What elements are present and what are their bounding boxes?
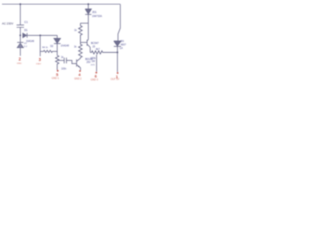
resistor R3 vertical	[79, 42, 83, 58]
wire to Q2 base	[80, 41, 87, 43]
wire Z1 down	[87, 14, 89, 39]
svg-text:1N4148: 1N4148	[26, 41, 35, 43]
node junction dot left rail	[19, 3, 21, 5]
capacitor C2	[64, 58, 66, 64]
wire branch to resistor chain	[80, 22, 88, 24]
svg-text:ZD1: ZD1	[92, 12, 97, 14]
svg-text:GND: GND	[17, 63, 22, 65]
diode D2	[54, 38, 61, 43]
diode D1	[23, 33, 27, 38]
wire R5 branch to ground	[96, 55, 98, 72]
resistor R8 horizontal	[40, 50, 57, 52]
wire below C1	[19, 27, 21, 35]
terminal dot GND1	[57, 70, 59, 72]
svg-text:4007: 4007	[121, 43, 127, 46]
wire Q2 emitter	[89, 47, 91, 52]
svg-text:100n: 100n	[61, 68, 67, 70]
diode D4	[114, 41, 121, 46]
svg-text:D1: D1	[24, 28, 28, 32]
wire node3 vertical	[39, 35, 41, 56]
zener D3	[17, 35, 23, 47]
node junction dot mid rail	[87, 3, 89, 5]
wire right vertical drop	[118, 4, 120, 41]
svg-text:1N4733A: 1N4733A	[92, 15, 102, 18]
svg-text:230V: 230V	[36, 63, 42, 65]
resistor R4 vertical	[56, 55, 59, 70]
svg-text:GND 2: GND 2	[74, 77, 82, 80]
svg-text:AC 230V: AC 230V	[2, 22, 13, 26]
wire D2 to R4	[56, 44, 58, 56]
wire corner into D2	[56, 35, 58, 38]
svg-text:1N: 1N	[121, 40, 124, 43]
svg-text:BC547: BC547	[91, 42, 99, 45]
zener Z1	[85, 4, 91, 14]
svg-text:GND 3: GND 3	[91, 78, 99, 81]
wire C2 to Q3 base	[66, 60, 76, 63]
wire top supply rail	[2, 3, 120, 5]
wire D1 to node	[27, 34, 57, 36]
resistor R5 horizontal	[90, 51, 117, 54]
resistor R2 vertical	[79, 23, 83, 42]
wire left vertical input	[19, 4, 21, 25]
terminal dot GND2	[79, 70, 81, 72]
node junction dot D1 anode	[19, 35, 21, 37]
wire Q3 emitter to terminal	[80, 68, 82, 70]
svg-text:GND 1: GND 1	[52, 77, 60, 80]
node junction dot output	[117, 52, 119, 54]
transistor Q2	[87, 40, 90, 48]
node junction dot mid wire	[39, 35, 41, 37]
svg-text:1A: 1A	[120, 47, 123, 50]
svg-text:4k7: 4k7	[96, 48, 101, 51]
transistor Q3	[77, 58, 81, 68]
wire D4 down	[116, 46, 118, 72]
terminal dot GND3	[95, 72, 97, 74]
wire D3 to terminal 2	[19, 48, 21, 56]
terminal dot OUT	[117, 72, 119, 74]
svg-text:OUT 5V: OUT 5V	[111, 78, 120, 81]
svg-text:1N4148: 1N4148	[61, 46, 70, 48]
wire cap branch	[57, 59, 64, 61]
svg-text:100k: 100k	[90, 57, 96, 60]
svg-text:C1: C1	[24, 20, 28, 24]
capacitor C1	[17, 25, 24, 27]
svg-text:R8 1k: R8 1k	[42, 47, 49, 49]
